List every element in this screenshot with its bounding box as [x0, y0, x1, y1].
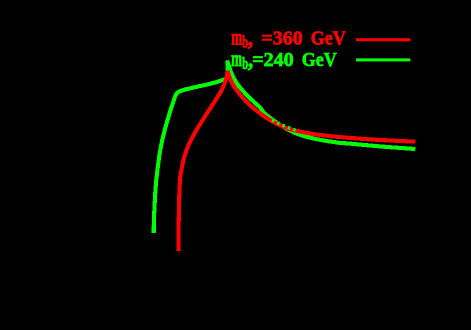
green curve right branch	[227, 61, 415, 150]
red curve (m_b'=360 GeV)	[178, 71, 415, 251]
legend text line 2: m_b'=240 GeV (green)	[231, 46, 337, 72]
wire crossing dither overlay	[272, 120, 296, 130]
legend text line 1: m_b'=360 GeV (red)	[231, 25, 346, 51]
green resonance spike	[226, 60, 228, 79]
svg-text:=360: =360	[261, 28, 302, 50]
svg-text:m: m	[231, 46, 242, 72]
green curve left branch (m_b'=240 GeV)	[154, 79, 226, 233]
legend marker line 2 (green)	[356, 58, 410, 61]
svg-text:=240: =240	[252, 49, 293, 71]
svg-text:GeV: GeV	[311, 28, 346, 50]
legend marker line 1 (red)	[356, 38, 410, 41]
svg-text:GeV: GeV	[302, 49, 337, 71]
